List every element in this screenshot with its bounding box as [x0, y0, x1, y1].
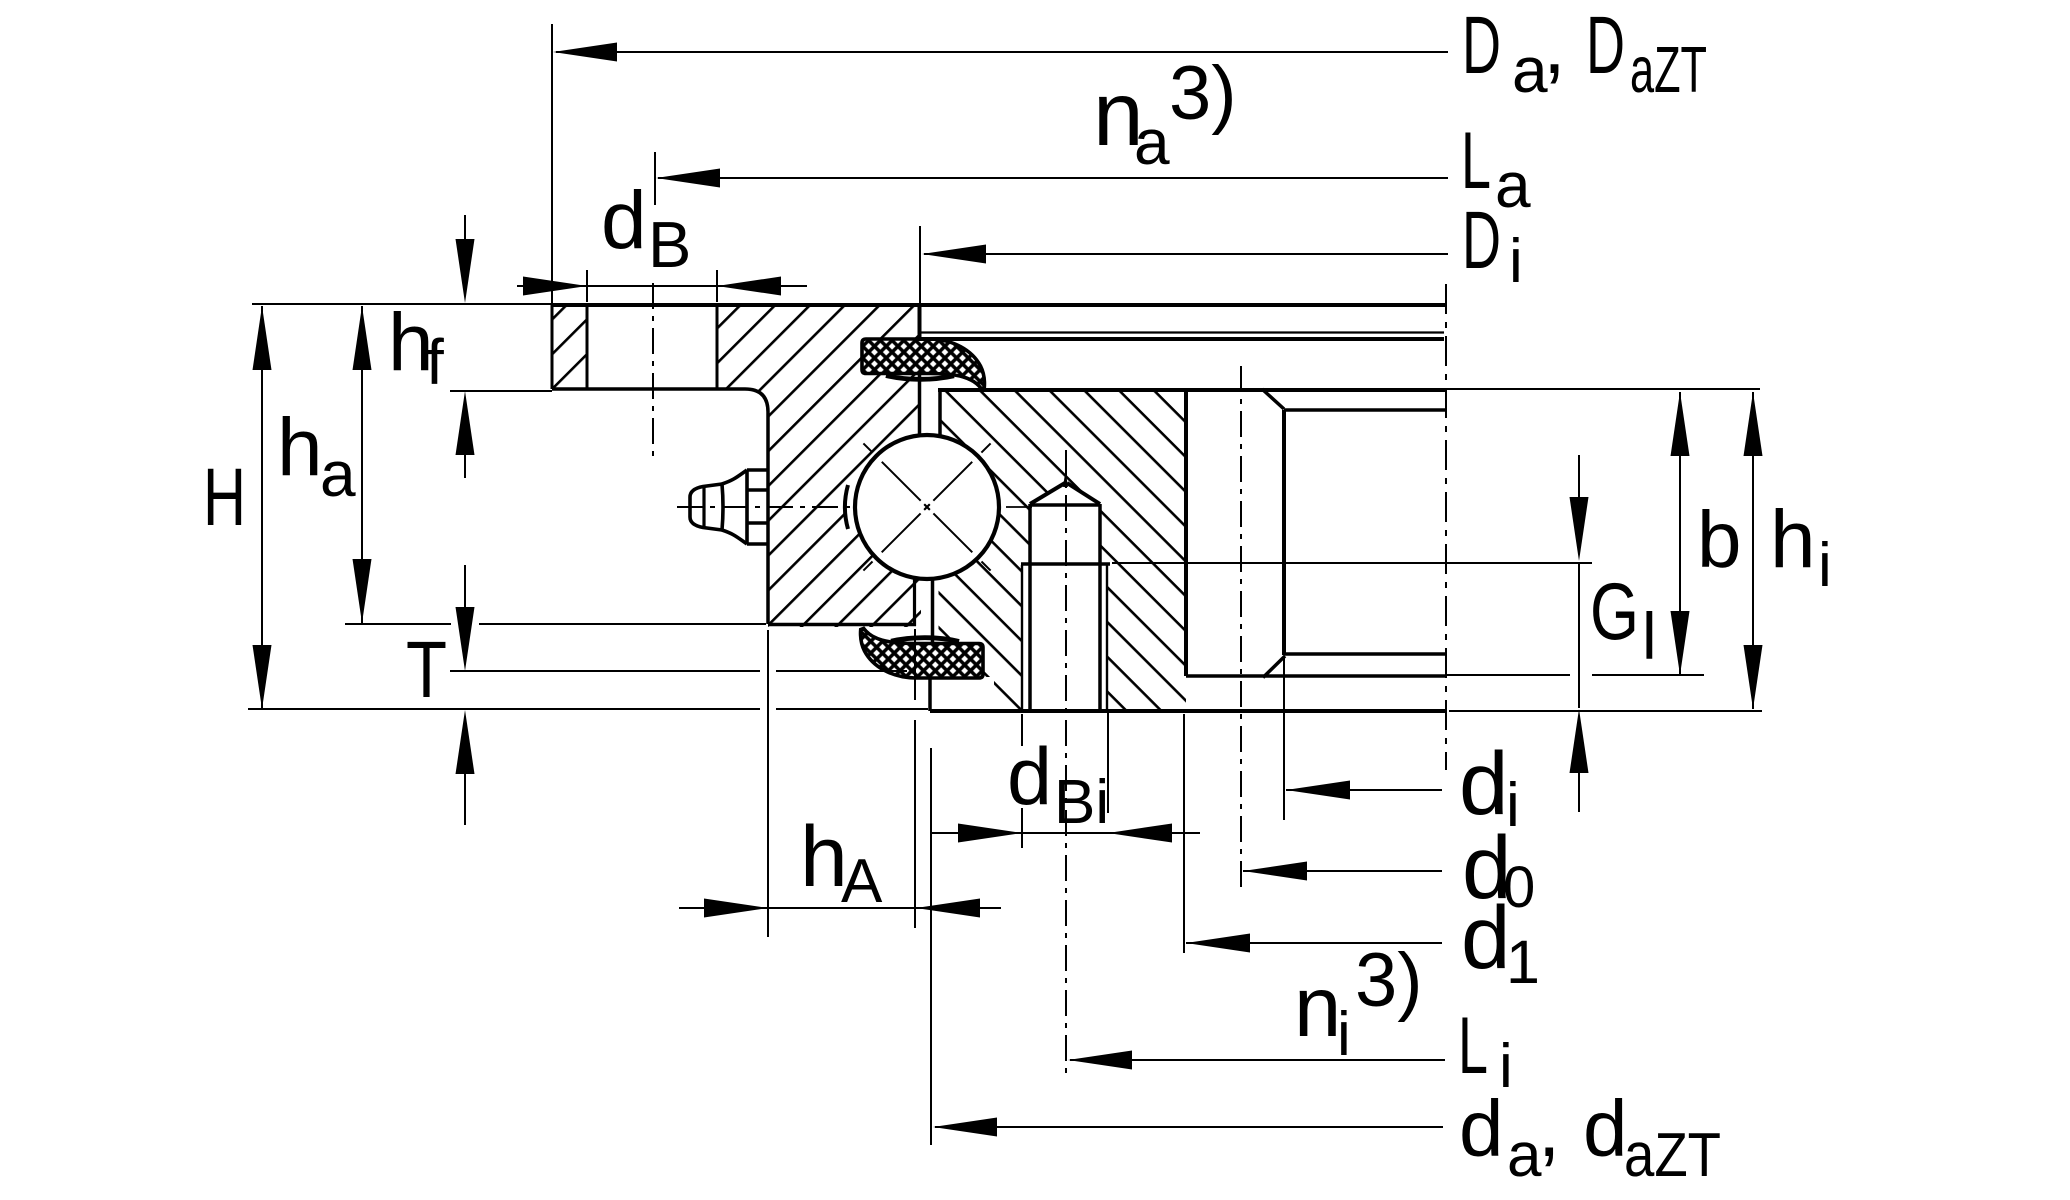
ball — [855, 435, 999, 579]
filling plug body left side — [1028, 504, 1032, 709]
svg-text:aZT: aZT — [1630, 33, 1707, 106]
outer ring bottom face — [768, 623, 916, 627]
dimension d_B — [517, 285, 807, 287]
label D_i — [1462, 195, 1523, 296]
ring joint line below ball — [913, 576, 916, 626]
inner ring top recess surface — [1284, 408, 1446, 412]
svg-text:L: L — [1461, 116, 1491, 206]
bottom seal (cross-hatched) — [861, 628, 983, 678]
outer raceway arc — [845, 485, 848, 529]
svg-text:A: A — [841, 847, 883, 916]
inner ring bottom extension line — [1449, 710, 1762, 712]
flange bolt hole centerline — [652, 283, 654, 462]
label d_Bi — [1007, 732, 1109, 837]
filling plug hole left wall — [1021, 565, 1023, 709]
dimension D_a — [556, 51, 1448, 53]
svg-text:G: G — [1590, 567, 1639, 657]
label L_i — [1458, 1001, 1513, 1101]
svg-text:1: 1 — [1506, 928, 1540, 996]
svg-text:a: a — [1134, 106, 1170, 178]
ball right centerline dash — [1006, 506, 1032, 508]
label n_a 3) — [1093, 51, 1237, 178]
inner ring bottom chamfer — [1263, 656, 1285, 678]
label d_0 — [1462, 817, 1535, 920]
svg-text:d: d — [1007, 732, 1052, 822]
dimension H — [261, 306, 263, 709]
flange bolt hole right wall — [716, 305, 719, 389]
label d_1 — [1461, 887, 1540, 996]
inner ring bore wall — [1282, 410, 1286, 655]
seal groove clearance (white, below bottom seal) — [916, 677, 994, 709]
dimension d_B extension lines — [586, 270, 588, 302]
svg-text:D: D — [1462, 195, 1501, 286]
label n_i 3) — [1294, 938, 1423, 1069]
svg-text:B: B — [648, 208, 691, 281]
dimension h_A — [679, 907, 1001, 909]
h_a bottom extension line — [345, 623, 451, 625]
bottom surface extension line — [248, 708, 760, 710]
svg-text:,: , — [1543, 0, 1566, 91]
label h_i — [1770, 494, 1832, 600]
grease nipple centerline — [677, 506, 856, 508]
label L_a — [1461, 116, 1531, 221]
inner ring left face below ball — [931, 579, 935, 643]
T top extension line — [450, 670, 760, 672]
svg-text:l: l — [1642, 599, 1657, 673]
outer ring body (hatched) — [717, 305, 999, 627]
inner ring top chamfer — [1262, 389, 1284, 409]
flange bolt hole left wall — [586, 305, 589, 389]
b bottom extension line — [1447, 674, 1570, 676]
inner ring bolt hole left wall — [1184, 390, 1188, 676]
svg-text:i: i — [1818, 531, 1832, 600]
dimension L_a — [658, 177, 1448, 179]
dimension d_1 — [1186, 942, 1442, 944]
label d_a, d_aZT — [1459, 1084, 1721, 1190]
dimension D_i extension line — [919, 226, 921, 303]
svg-text:h: h — [1770, 494, 1816, 585]
svg-text:d: d — [1583, 1084, 1628, 1173]
svg-text:b: b — [1697, 495, 1742, 584]
svg-text:d: d — [1459, 1084, 1504, 1173]
filling plug hole right wall — [1106, 565, 1108, 709]
dimension d_Bi extension lines — [1021, 714, 1023, 746]
flange bottom extension line — [450, 390, 552, 392]
inner ring top extension line — [1266, 388, 1760, 390]
dimension d_i — [1286, 789, 1442, 791]
dimension d_a extension line — [930, 748, 932, 1145]
ball center mark — [925, 505, 930, 510]
flange left edge — [551, 305, 554, 389]
svg-text:D: D — [1462, 0, 1501, 91]
label G_l — [1590, 567, 1657, 673]
svg-text:d: d — [1461, 887, 1511, 987]
filling plug hole (white) — [1022, 560, 1107, 709]
svg-text:i: i — [1509, 227, 1523, 296]
dimension d_Bi — [931, 832, 1200, 834]
gear pitch centerline — [1445, 284, 1447, 770]
dimension d_0 — [1243, 870, 1442, 872]
dimension h_i — [1752, 392, 1754, 709]
top surface extension line — [252, 303, 552, 305]
inner ring recess bottom edge — [1186, 674, 1446, 678]
flange bottom surface with fillet — [552, 389, 768, 624]
dimension h_a — [361, 306, 363, 623]
dimension h_A extension lines — [767, 630, 769, 937]
svg-text:L: L — [1458, 1001, 1488, 1091]
label d_B — [601, 175, 691, 281]
inner ring bottom recess surface — [1284, 652, 1446, 656]
dimension d_a — [935, 1126, 1443, 1128]
svg-text:D: D — [1586, 0, 1625, 91]
svg-text:i: i — [1337, 1000, 1351, 1069]
inner ring top surface — [938, 388, 1446, 392]
filling plug body right side — [1098, 504, 1102, 709]
svg-text:a: a — [320, 438, 356, 510]
inner ring body (hatched) — [855, 390, 1186, 711]
label h_A — [800, 809, 883, 916]
dimension L_a extension line — [654, 152, 656, 205]
svg-text:n: n — [1294, 960, 1341, 1055]
inner ring bottom face — [930, 709, 1446, 713]
dimension d_i extension line — [1283, 656, 1285, 820]
svg-text:3): 3) — [1169, 51, 1237, 136]
raceway crescent white gap — [846, 486, 857, 528]
filling plug body (white) — [1030, 477, 1100, 566]
top seal (cross-hatched) — [862, 339, 984, 389]
label d_i — [1459, 733, 1520, 840]
dimension D_i — [924, 253, 1448, 255]
dimension G_l — [1578, 455, 1580, 500]
svg-text:Bi: Bi — [1054, 768, 1109, 837]
label D_a, D_aZT — [1462, 0, 1707, 106]
label h_a — [277, 402, 356, 510]
outer/top mounting surface — [552, 303, 1446, 307]
svg-text:H: H — [203, 452, 246, 543]
filling plug centerline — [1065, 450, 1067, 1078]
filling plug cone left — [1030, 483, 1065, 504]
ring joint line above ball — [918, 305, 922, 341]
svg-text:3): 3) — [1355, 938, 1423, 1023]
inner ring left face above ball — [938, 389, 942, 438]
svg-text:d: d — [601, 175, 647, 266]
label h_f — [388, 297, 444, 398]
filling plug cone right — [1067, 483, 1100, 504]
svg-text:f: f — [426, 326, 444, 398]
dimension b — [1679, 392, 1681, 675]
dimension d_1 extension line — [1183, 714, 1185, 953]
thick line under top surface — [921, 337, 1444, 341]
thin line under top surface — [921, 331, 1444, 333]
inner ring bottom left edge — [928, 677, 932, 711]
svg-text:T: T — [406, 625, 447, 714]
filling plug seat line — [1021, 562, 1110, 566]
filling plug shoulder — [1030, 503, 1100, 507]
outer ring flange hatched strip — [552, 305, 587, 389]
ball diagonal centerline 1 — [863, 443, 990, 570]
dimension D_a extension line — [551, 24, 553, 303]
svg-text:,: , — [1538, 1084, 1560, 1173]
filling plug tip notch — [1064, 477, 1067, 487]
ball diagonal centerline 2 — [863, 443, 990, 570]
svg-text:aZT: aZT — [1624, 1121, 1721, 1190]
dimension h_f — [464, 215, 466, 248]
svg-text:h: h — [277, 402, 323, 493]
grease nipple — [690, 470, 768, 544]
dimension L_i — [1070, 1059, 1445, 1061]
svg-text:a: a — [1507, 1121, 1542, 1190]
inner ring bolt hole centerline — [1240, 366, 1242, 888]
G_l groove line — [1112, 562, 1592, 564]
dimension T — [464, 565, 466, 612]
